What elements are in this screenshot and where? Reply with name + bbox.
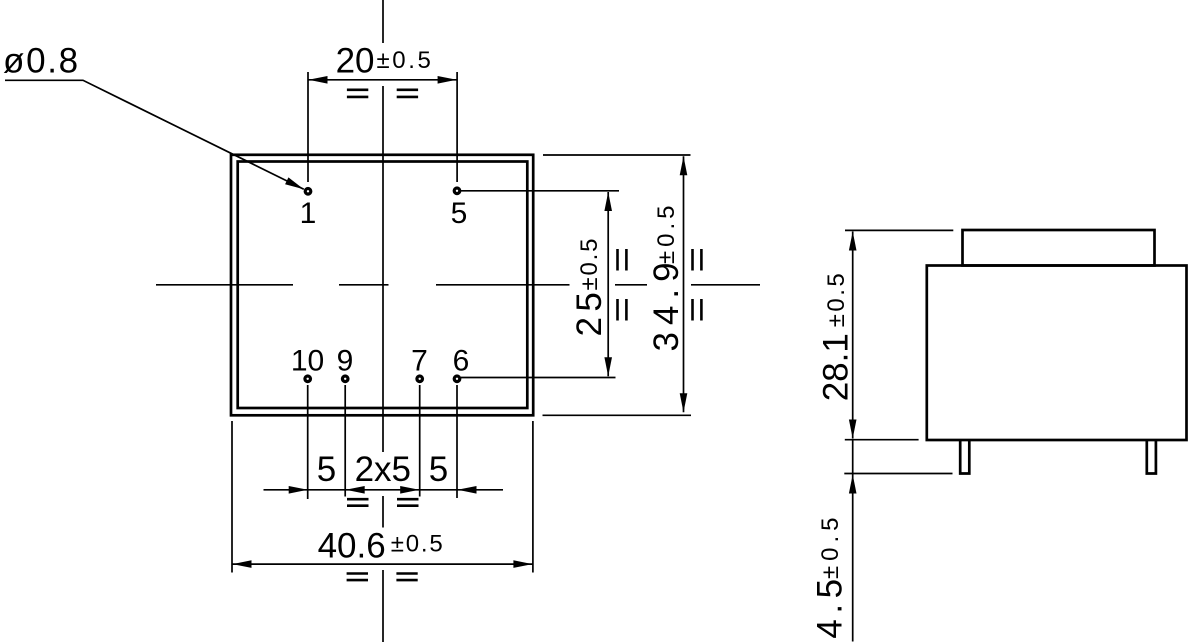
dim 2x5 arrow left bbox=[346, 486, 365, 494]
dim 25 dimension line bbox=[607, 192, 609, 376]
dim 25 arrow up bbox=[604, 192, 612, 211]
svg-text:9: 9 bbox=[337, 345, 354, 378]
dim 5/2x5/5 dimension line bbox=[264, 489, 504, 491]
dim 40.6 extension line left bbox=[231, 421, 233, 573]
dim 20 arrow right bbox=[438, 76, 457, 84]
dim right-5 arrow bbox=[458, 486, 477, 494]
pin 7 extension line down bbox=[419, 385, 421, 497]
svg-text:ø0.8: ø0.8 bbox=[3, 42, 80, 81]
dim 40.6 arrow right bbox=[513, 560, 532, 568]
dim 34.9 arrow up bbox=[680, 156, 688, 175]
svg-text:34.9: 34.9 bbox=[647, 255, 686, 351]
dim 28.1 dimension line bbox=[852, 232, 854, 439]
dim 25 symmetry marks bbox=[618, 249, 627, 321]
dim 28.1 arrow down bbox=[849, 420, 857, 439]
dim left-5 arrow bbox=[289, 486, 308, 494]
dim 20 extension line right bbox=[456, 72, 458, 182]
dim 28.1 arrow up bbox=[849, 232, 857, 251]
svg-text:1: 1 bbox=[300, 197, 317, 230]
dim 4.5 tail line bbox=[852, 474, 854, 642]
pin 1 bbox=[305, 189, 311, 195]
dim 28.1 extension line top bbox=[845, 229, 953, 231]
dim 4.5 connector line bbox=[852, 440, 854, 474]
dim 4.5 extension line (pin end) bbox=[844, 473, 952, 475]
dim 34.9 arrow down bbox=[680, 393, 688, 412]
svg-text:±0.5: ±0.5 bbox=[377, 47, 434, 74]
svg-text:20: 20 bbox=[336, 42, 375, 81]
side view left pin bbox=[960, 440, 969, 474]
dim 28.1 extension line bottom bbox=[845, 439, 919, 441]
svg-text:±0.5: ±0.5 bbox=[391, 531, 445, 558]
dim 20 symmetry marks bbox=[347, 90, 418, 97]
vertical centerline bbox=[382, 0, 384, 642]
svg-text:5: 5 bbox=[451, 197, 468, 230]
svg-text:±0.5: ±0.5 bbox=[653, 201, 680, 264]
svg-text:±0.5: ±0.5 bbox=[817, 512, 844, 579]
pin 9 extension line down bbox=[344, 385, 346, 497]
svg-text:25: 25 bbox=[570, 287, 609, 337]
case outline inner rect bbox=[238, 162, 528, 409]
dim 4.5 arrow up bbox=[849, 475, 857, 494]
svg-text:2x5: 2x5 bbox=[355, 450, 411, 489]
pin 6 bbox=[454, 376, 460, 382]
svg-text:±0.5: ±0.5 bbox=[823, 271, 850, 328]
dim 34.9 extension line bottom bbox=[543, 414, 692, 416]
dim 40.6 symmetry marks bbox=[347, 574, 418, 581]
dim 34.9 symmetry marks bbox=[693, 249, 702, 321]
dim 20 extension line left bbox=[307, 72, 309, 182]
svg-text:6: 6 bbox=[453, 345, 470, 378]
dim 40.6 dimension line bbox=[232, 563, 533, 565]
side view cap bbox=[963, 230, 1155, 266]
svg-text:10: 10 bbox=[291, 345, 324, 378]
leader arrowhead bbox=[285, 177, 304, 189]
pin 10 bbox=[305, 376, 311, 382]
dim 25 extension line top (pin 5) bbox=[461, 190, 619, 192]
svg-text:4.5: 4.5 bbox=[811, 573, 850, 638]
side view body bbox=[927, 266, 1187, 441]
pin 6 extension line down bbox=[456, 385, 458, 498]
dim 20 arrow left bbox=[309, 76, 328, 84]
svg-text:40.6: 40.6 bbox=[318, 527, 386, 566]
dim 25 arrow down bbox=[604, 357, 612, 376]
side view right pin bbox=[1147, 440, 1156, 474]
horizontal centerline bbox=[156, 284, 760, 286]
case outline outer rect bbox=[231, 155, 533, 416]
dim 34.9 extension line top bbox=[543, 154, 691, 156]
dim 20 dimension line bbox=[308, 79, 457, 81]
dim 40.6 extension line right bbox=[532, 421, 534, 573]
svg-text:7: 7 bbox=[411, 345, 428, 378]
dim 25 extension line bottom (pin 6) bbox=[461, 377, 616, 379]
dim 40.6 arrow left bbox=[233, 560, 252, 568]
svg-text:5: 5 bbox=[317, 450, 336, 489]
pin 7 bbox=[417, 376, 423, 382]
dim 2x5 arrow right bbox=[400, 486, 419, 494]
dim 2x5 symmetry marks bbox=[347, 499, 419, 506]
leader line Ø0.8 bbox=[5, 80, 304, 189]
svg-text:28.1: 28.1 bbox=[817, 333, 856, 401]
pin 9 bbox=[342, 376, 348, 382]
pin 10 extension line down bbox=[307, 385, 309, 499]
svg-text:±0.5: ±0.5 bbox=[576, 237, 603, 291]
pin 5 bbox=[454, 188, 460, 194]
svg-text:5: 5 bbox=[429, 450, 448, 489]
dim 34.9 dimension line bbox=[683, 156, 685, 412]
